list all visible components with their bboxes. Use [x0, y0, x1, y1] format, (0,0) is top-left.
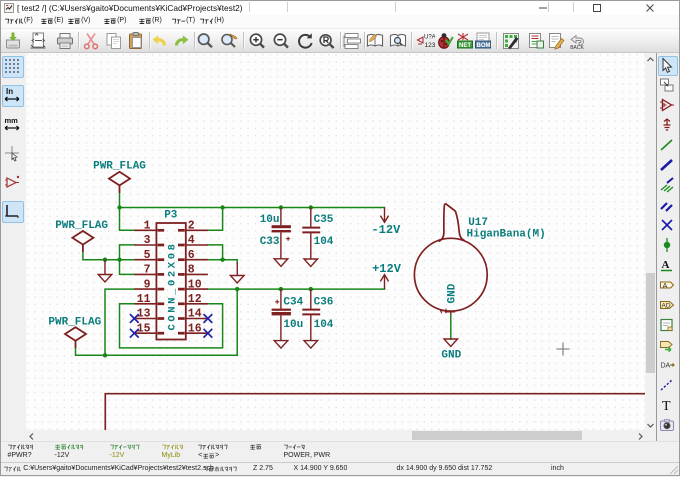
svg-text:10u: 10u [283, 319, 303, 331]
svg-text:HiganBana(M): HiganBana(M) [467, 229, 546, 241]
ground under C35 [304, 259, 318, 267]
ground GND2 [230, 276, 244, 284]
svg-text:C35: C35 [314, 214, 334, 226]
ground GND1 stem [104, 260, 106, 275]
no-connect pin 14 [204, 314, 213, 323]
wire pin2 to -12V rail [208, 208, 223, 231]
junction pin2 / -12V rail [220, 205, 224, 209]
connector P3 pins [134, 230, 208, 333]
cursor crosshair [557, 343, 570, 356]
power port +12V [380, 275, 388, 290]
wire +12V rail drop [236, 289, 238, 355]
ground GND1 [98, 275, 112, 283]
capacitor C33 10u [272, 208, 291, 259]
svg-text:GND: GND [446, 283, 458, 303]
junction pin5 tap [117, 258, 121, 262]
svg-text:U17: U17 [468, 217, 488, 229]
capacitor C35 104 [302, 208, 320, 260]
svg-text:In: In [6, 87, 13, 96]
no-connect pin 16 [204, 329, 213, 338]
junction C35 / -12V rail [309, 205, 313, 209]
junction +12V rail drop [235, 287, 239, 291]
svg-text:PWR_FLAG: PWR_FLAG [93, 160, 146, 172]
svg-text:8: 8 [188, 264, 195, 277]
connector P3 CONN_02X08 body [156, 223, 185, 340]
svg-text:10: 10 [188, 278, 202, 291]
power flag PWR_FLAG 2 [72, 231, 93, 252]
wire to GND drop [223, 260, 238, 263]
svg-text:GND: GND [441, 350, 461, 362]
capacitor C34 10u [272, 289, 291, 341]
wire pin11 to pin12 loop [120, 304, 223, 348]
graphic box lower sheet [105, 394, 645, 431]
svg-text:3: 3 [144, 234, 151, 247]
wire pin9 down [105, 289, 134, 355]
svg-text:C33: C33 [260, 236, 280, 248]
junction C36 / +12V rail [309, 287, 313, 291]
svg-text:6: 6 [188, 249, 195, 262]
wire +12V rail [208, 288, 385, 290]
capacitor C36 104 [302, 289, 320, 341]
svg-text:A: A [662, 259, 670, 271]
svg-text:PWR_FLAG: PWR_FLAG [55, 220, 108, 232]
wire U17 pin to GND [450, 315, 452, 339]
svg-text:14: 14 [188, 308, 202, 321]
svg-text:T: T [662, 399, 671, 413]
svg-text:DA: DA [661, 363, 671, 370]
svg-text:A: A [663, 281, 668, 290]
wire pin6 [208, 259, 223, 261]
svg-text:12: 12 [188, 293, 202, 306]
junction pin4/pin6 [220, 258, 224, 262]
junction PWR_FLAG1 / -12V rail [117, 205, 121, 209]
ground GND2 stem [236, 263, 238, 276]
svg-text:NET: NET [459, 43, 471, 49]
svg-text:1: 1 [440, 308, 451, 314]
wire pin4 down [208, 245, 223, 260]
svg-text:16: 16 [188, 322, 202, 335]
junction GND1 tap [103, 258, 107, 262]
svg-text:104: 104 [314, 236, 334, 248]
svg-text:-12V: -12V [371, 223, 401, 237]
ground under U17 [444, 339, 458, 347]
svg-text:123: 123 [424, 42, 435, 49]
svg-text:4: 4 [188, 234, 195, 247]
IC U17 pin 1 [445, 311, 455, 315]
svg-text:BOM: BOM [477, 43, 491, 49]
svg-text:C34: C34 [283, 296, 303, 308]
svg-text:7: 7 [144, 264, 151, 277]
junction bottom rail [103, 353, 107, 357]
wire PWR_FLAG1 to pin1 [120, 193, 135, 231]
power flag PWR_FLAG 3 [65, 327, 86, 348]
wire pin3 to pin7 [120, 245, 135, 275]
svg-text:C36: C36 [314, 296, 334, 308]
svg-text:11: 11 [137, 293, 151, 306]
ground under C33 [274, 259, 288, 267]
svg-text:AD: AD [662, 303, 671, 310]
wire PWR_FLAG3 bottom rail [76, 348, 238, 355]
svg-text:P3: P3 [164, 210, 178, 222]
svg-text:mm: mm [5, 116, 19, 125]
svg-text:5: 5 [144, 249, 151, 262]
wire -12V rail [120, 207, 385, 209]
junction C33 / -12V rail [279, 205, 283, 209]
no-connect pin 13 [130, 314, 139, 323]
power port -12V [380, 208, 388, 223]
svg-text:U?A: U?A [424, 35, 435, 41]
svg-text:CONN_02X08: CONN_02X08 [166, 241, 178, 330]
IC U17 HiganBana(M) body [414, 204, 487, 311]
svg-text:BACK: BACK [570, 45, 584, 51]
svg-text:10u: 10u [260, 214, 280, 226]
wire PWR_FLAG2 to pin5 [83, 252, 134, 260]
svg-text:+12V: +12V [372, 262, 402, 276]
junction C34 / +12V rail [279, 287, 283, 291]
power flag PWR_FLAG 1 [109, 172, 130, 193]
no-connect pin 15 [130, 329, 139, 338]
svg-text:2: 2 [188, 220, 195, 233]
svg-text:9: 9 [144, 278, 151, 291]
svg-text:104: 104 [314, 319, 334, 331]
svg-text:PWR_FLAG: PWR_FLAG [48, 316, 101, 328]
svg-text:1: 1 [144, 220, 151, 233]
ground under C34 [274, 341, 288, 349]
ground under C36 [304, 341, 318, 349]
